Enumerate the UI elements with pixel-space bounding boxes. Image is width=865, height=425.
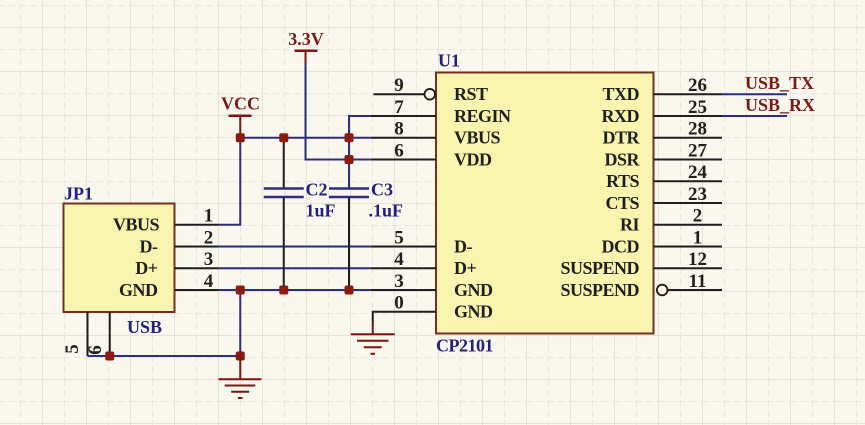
svg-text:25: 25 [688,97,707,118]
svg-text:4: 4 [204,271,214,292]
svg-text:24: 24 [688,162,708,183]
U1 pin 7 REGIN [371,115,436,117]
svg-text:26: 26 [688,75,707,96]
svg-text:REGIN: REGIN [454,106,511,126]
JP1 pin 1 [175,224,219,226]
svg-text:SUSPEND: SUSPEND [560,280,639,300]
svg-text:SUSPEND: SUSPEND [560,258,639,278]
wire GND row [218,289,371,291]
junction C3 bottom [345,286,354,295]
U1 pin 0 GND [373,312,436,323]
svg-text:RXD: RXD [602,106,640,126]
svg-text:5: 5 [62,344,83,354]
capacitor C3 [329,116,369,290]
svg-text:VCC: VCC [221,94,260,114]
svg-text:28: 28 [688,119,707,140]
U1 pin 26 TXD [654,93,723,95]
svg-text:USB: USB [127,317,162,337]
junction C3 top [345,133,354,142]
junction GND row at 240 [236,286,245,295]
U1 pin 5 D- [371,246,436,248]
U1 pin 28 DTR [654,137,723,139]
wire D- row [218,246,371,248]
svg-text:VBUS: VBUS [454,128,501,148]
svg-text:CP2101: CP2101 [436,336,493,356]
junction C2 top [279,133,288,142]
U1 pin 8 VBUS [371,137,436,139]
svg-text:VDD: VDD [454,149,492,169]
U1 pin 3 GND [371,289,436,291]
svg-text:USB_TX: USB_TX [745,73,814,93]
svg-text:GND: GND [454,280,493,300]
wire JP1 pin1 to VCC rail [218,138,240,225]
U1 pin 12 SUSPEND [654,267,723,269]
U1 pin 23 CTS [654,202,723,204]
svg-text:2: 2 [204,228,214,249]
connector JP1 [64,204,175,313]
U1 pin 6 VDD [371,159,436,161]
svg-text:C2: C2 [306,180,328,200]
capacitor C2 [264,138,304,290]
JP1 pin 3 [175,267,219,269]
svg-text:6: 6 [394,140,404,161]
svg-text:RST: RST [454,84,488,104]
U1 pin 25 RXD [654,115,723,117]
U1 pin 9 RST with inversion bubble [374,93,425,95]
junction C3 VDD [345,155,354,164]
ground symbol left [219,356,262,398]
svg-text:3: 3 [394,271,404,292]
U1 pin 11 SUSPEND with inversion bubble [668,289,723,291]
wire REGIN drop [349,116,371,138]
wire GND drop at 240 [239,290,241,356]
wire USB_TX [722,93,787,95]
svg-text:1: 1 [204,206,214,227]
wire VCC rail [240,137,371,139]
svg-text:D-: D- [140,237,158,257]
U1 pin 4 D+ [371,267,436,269]
wire D+ row [218,267,371,269]
U1 pin 24 RTS [654,180,723,182]
svg-text:1uF: 1uF [306,201,336,221]
svg-text:6: 6 [85,345,106,355]
power port 3.3V [288,29,324,64]
U1 pin 1 DCD [654,246,723,248]
svg-text:7: 7 [394,97,404,118]
svg-text:3.3V: 3.3V [288,29,324,49]
junction at VCC stem [236,133,245,142]
svg-text:.1uF: .1uF [369,201,404,221]
ground symbol right [351,322,395,354]
svg-text:CTS: CTS [605,193,639,213]
svg-text:5: 5 [394,227,404,248]
svg-text:GND: GND [119,280,158,300]
svg-text:12: 12 [688,249,707,270]
svg-text:TXD: TXD [602,84,639,104]
svg-text:USB_RX: USB_RX [745,95,815,115]
svg-text:JP1: JP1 [64,184,93,204]
svg-text:3: 3 [204,249,214,270]
U1 pin 2 RI [654,224,723,226]
JP1 pin 4 [175,289,219,291]
svg-text:0: 0 [394,293,404,314]
wire 3.3V to VDD [306,64,371,160]
svg-text:9: 9 [394,75,404,96]
junction bottom run at pin6 [105,352,114,361]
JP1 pin 2 [175,246,219,248]
svg-text:8: 8 [394,119,404,140]
svg-text:DSR: DSR [604,149,640,169]
svg-text:D+: D+ [454,258,476,278]
svg-text:GND: GND [454,302,493,322]
svg-text:DTR: DTR [602,128,640,148]
IC U1 CP2101 [436,73,654,334]
svg-text:RI: RI [620,215,639,235]
svg-text:VBUS: VBUS [113,215,160,235]
junction C2 bottom [279,286,288,295]
wire USB_RX [722,115,787,117]
junction ground node [236,352,245,361]
wire bottom GND run [88,355,241,357]
svg-text:27: 27 [688,140,708,161]
JP1 pin 5 [87,312,89,356]
svg-text:D+: D+ [135,258,157,278]
svg-text:11: 11 [689,271,707,292]
svg-text:DCD: DCD [602,236,640,256]
svg-text:U1: U1 [438,51,460,71]
svg-text:2: 2 [693,206,703,227]
svg-text:D-: D- [454,236,472,256]
JP1 pin 6 [109,312,111,356]
svg-text:4: 4 [394,249,404,270]
U1 pin 27 DSR [654,159,723,161]
svg-text:23: 23 [688,184,707,205]
svg-text:C3: C3 [371,180,393,200]
svg-text:1: 1 [693,227,703,248]
power port VCC [221,94,260,138]
svg-text:RTS: RTS [606,171,639,191]
